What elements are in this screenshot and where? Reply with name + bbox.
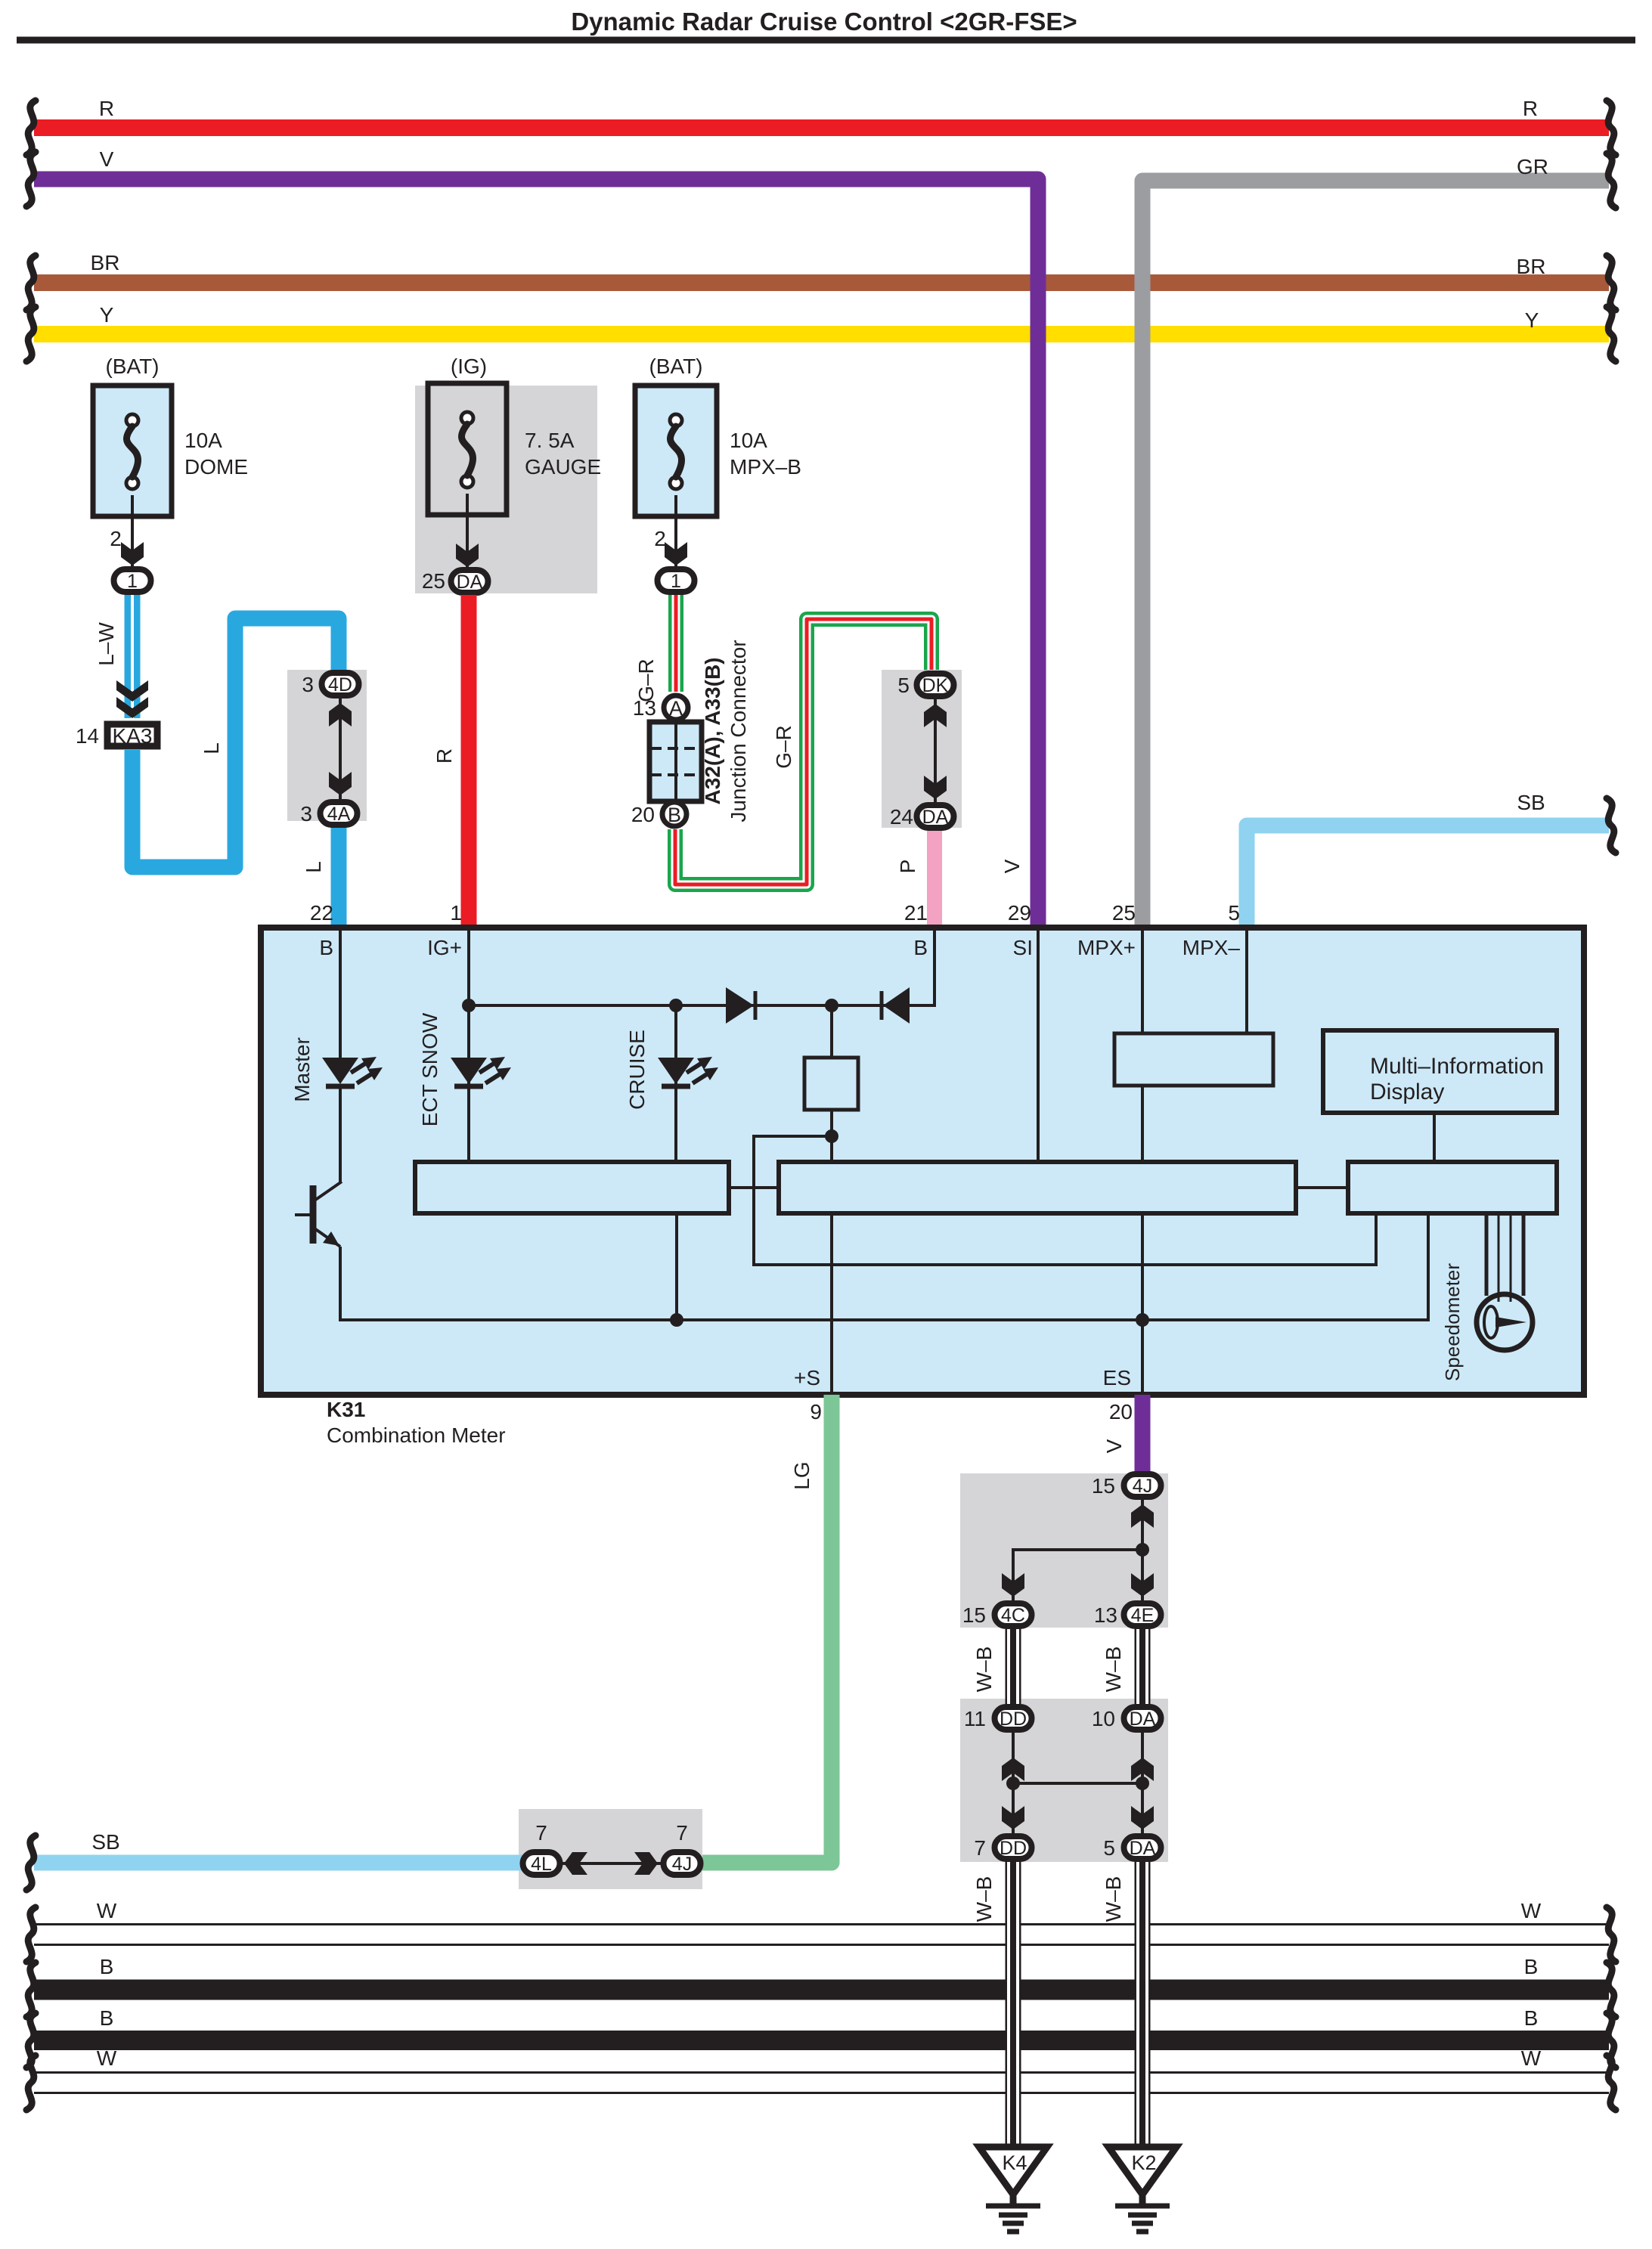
mpx interface box xyxy=(1114,1033,1273,1086)
svg-text:B: B xyxy=(668,804,681,826)
svg-text:A32(A), A33(B): A32(A), A33(B) xyxy=(701,658,724,805)
svg-text:L–W: L–W xyxy=(95,622,118,666)
svg-text:V: V xyxy=(1102,1439,1126,1453)
svg-text:11: 11 xyxy=(964,1707,986,1730)
LED Master xyxy=(322,1058,358,1084)
wire branch left of square xyxy=(754,1136,1376,1265)
svg-text:13: 13 xyxy=(633,696,656,720)
wire square to R2 xyxy=(830,1110,833,1162)
svg-text:25: 25 xyxy=(422,569,445,593)
wire DA to DA xyxy=(1141,1733,1144,1833)
svg-text:7: 7 xyxy=(974,1836,986,1860)
svg-text:5: 5 xyxy=(1228,901,1240,925)
connector oval 4J upper xyxy=(1124,1474,1161,1497)
squiggle GR right xyxy=(1607,153,1616,208)
svg-text:Y: Y xyxy=(100,303,114,327)
wire W-B DA to K2 xyxy=(1135,1862,1151,2144)
arrow down above DD lower xyxy=(1002,1806,1024,1829)
svg-text:4A: 4A xyxy=(327,804,351,825)
junction connector block A32/A33 xyxy=(649,722,702,801)
squiggle B2 right xyxy=(1607,2013,1616,2068)
svg-text:14: 14 xyxy=(76,724,99,748)
wire SI vertical xyxy=(1037,928,1040,1162)
svg-text:SB: SB xyxy=(1517,791,1545,814)
wire R from DA to pin 1 xyxy=(461,595,477,928)
svg-text:Junction Connector: Junction Connector xyxy=(727,640,750,822)
fuse 10A DOME xyxy=(93,386,172,516)
svg-text:5: 5 xyxy=(1103,1836,1115,1860)
svg-text:10A: 10A xyxy=(730,429,767,452)
wire V from pin 20 to 4J xyxy=(1135,1395,1151,1473)
junction emitter row ES xyxy=(1136,1313,1149,1327)
svg-text:K31: K31 xyxy=(327,1398,365,1421)
arrow into KA3 xyxy=(116,680,148,702)
svg-text:B: B xyxy=(100,2006,114,2030)
svg-text:2: 2 xyxy=(110,527,122,550)
wire 4L-4J link xyxy=(560,1862,662,1865)
svg-text:K2: K2 xyxy=(1131,2151,1156,2174)
wire square top xyxy=(830,1005,833,1058)
svg-text:Master: Master xyxy=(290,1037,314,1102)
connector circle A xyxy=(664,695,688,720)
wire L-W xyxy=(125,595,141,718)
wire BR bus xyxy=(34,274,1609,291)
squiggle W1 left xyxy=(26,1907,36,1962)
gray box connector DD/DA xyxy=(960,1699,1168,1862)
wire R2-R3 link xyxy=(1296,1186,1348,1189)
connector oval 4C xyxy=(995,1603,1032,1626)
svg-text:R: R xyxy=(1523,97,1538,120)
wire diode row xyxy=(469,1004,934,1007)
svg-text:7. 5A: 7. 5A xyxy=(525,429,575,452)
svg-text:L: L xyxy=(302,861,325,873)
wire W-B DD to K4 xyxy=(1006,1862,1021,2144)
connector oval 4D xyxy=(322,673,359,695)
junction DD xyxy=(1006,1777,1020,1790)
svg-text:W–B: W–B xyxy=(972,1646,996,1693)
arrow down above DA xyxy=(924,776,947,799)
svg-text:15: 15 xyxy=(1092,1474,1115,1498)
svg-text:+S: +S xyxy=(794,1366,820,1389)
svg-text:B: B xyxy=(913,936,928,959)
svg-text:SB: SB xyxy=(91,1830,119,1854)
svg-text:10A: 10A xyxy=(184,429,222,452)
wire MPX+ vertical xyxy=(1141,928,1144,1033)
wire L from 4A to pin 22 xyxy=(331,828,347,928)
arrow down above 4A xyxy=(329,772,352,795)
connector oval 4A xyxy=(321,802,358,825)
svg-text:V: V xyxy=(100,147,114,171)
svg-text:5: 5 xyxy=(897,674,910,697)
svg-text:DA: DA xyxy=(1130,1838,1156,1859)
svg-text:21: 21 xyxy=(904,901,928,925)
connector oval DK xyxy=(917,674,954,696)
wire MID to R3 xyxy=(1433,1113,1436,1162)
squiggle R right xyxy=(1607,101,1616,155)
connector oval DA upper xyxy=(1124,1707,1161,1730)
squiggle R left xyxy=(26,101,36,155)
svg-text:R: R xyxy=(432,748,456,764)
arrow up below DK xyxy=(924,704,947,727)
wire V bus to pin 29 SI xyxy=(34,179,1038,928)
svg-text:Multi–Information: Multi–Information xyxy=(1370,1054,1544,1079)
wire +S vertical xyxy=(830,1213,833,1395)
fuse 7.5A GAUGE xyxy=(428,383,507,515)
svg-text:G–R: G–R xyxy=(772,725,795,769)
svg-text:SI: SI xyxy=(1013,936,1033,959)
svg-text:Combination Meter: Combination Meter xyxy=(327,1423,506,1447)
wire fuse GAUGE pin 25 xyxy=(466,494,469,568)
svg-text:DA: DA xyxy=(457,572,483,593)
junction emitter row R1 xyxy=(670,1313,683,1327)
arrow right 4J xyxy=(634,1852,658,1875)
wire B bus 2 xyxy=(34,2031,1609,2050)
connector circle B xyxy=(662,802,687,826)
svg-text:DA: DA xyxy=(1130,1708,1156,1730)
diode D1 right xyxy=(726,987,754,1024)
wire pin22 to Master LED xyxy=(339,928,342,1058)
svg-text:4E: 4E xyxy=(1131,1605,1155,1626)
connector oval 1 DOME xyxy=(114,569,151,592)
wire W-B 4E to DA xyxy=(1135,1629,1151,1704)
squiggle SB bottom left xyxy=(26,1835,36,1890)
wire master LED to transistor xyxy=(339,1084,342,1182)
connector oval DD upper xyxy=(995,1707,1032,1730)
svg-text:20: 20 xyxy=(631,803,655,826)
svg-text:KA3: KA3 xyxy=(113,724,153,748)
wire DD-DA link xyxy=(1013,1782,1142,1785)
wire IG+ vertical xyxy=(467,928,470,1162)
svg-text:13: 13 xyxy=(1094,1603,1117,1627)
arrow up below 4D xyxy=(329,703,352,726)
svg-text:9: 9 xyxy=(810,1400,822,1423)
arrow up below 4J xyxy=(1131,1504,1154,1528)
svg-text:L: L xyxy=(200,742,223,754)
svg-text:Display: Display xyxy=(1370,1080,1444,1104)
junction CRUISE row xyxy=(669,999,683,1012)
svg-text:4J: 4J xyxy=(672,1854,692,1875)
squiggle B2 left xyxy=(26,2013,36,2068)
ic box R1 xyxy=(415,1162,729,1213)
svg-text:1: 1 xyxy=(671,571,681,592)
svg-text:DK: DK xyxy=(922,675,949,696)
junction DA xyxy=(1136,1777,1149,1790)
wire fuse DOME pin 2 xyxy=(131,495,134,566)
svg-text:Speedometer: Speedometer xyxy=(1441,1263,1464,1381)
squiggle Y left xyxy=(26,307,36,361)
wire connector DK-DA xyxy=(934,699,937,803)
wire Y bus xyxy=(34,326,1609,342)
wire pin21 vertical xyxy=(933,928,936,1007)
squiggle V left xyxy=(26,152,36,206)
wire B bus 1 xyxy=(34,1980,1609,2000)
LED ECT SNOW xyxy=(451,1058,487,1084)
arrow down above DA lower xyxy=(1131,1806,1154,1829)
gray box connector 4J/4C/4E xyxy=(960,1473,1168,1628)
gray box connector 4L/4J xyxy=(519,1809,702,1889)
resistor square xyxy=(804,1058,858,1110)
svg-text:W: W xyxy=(97,1899,117,1922)
svg-text:MPX–B: MPX–B xyxy=(730,455,801,479)
junction square row xyxy=(825,999,838,1012)
squiggle W2 left xyxy=(26,2055,36,2110)
svg-text:BR: BR xyxy=(91,251,120,274)
connector oval 1 MPX-B xyxy=(658,569,695,592)
junction below square xyxy=(825,1129,838,1143)
svg-text:B: B xyxy=(100,1955,114,1978)
arrow down above 4E xyxy=(1131,1573,1154,1597)
wire CRUISE vertical xyxy=(674,1005,677,1162)
arrow into connector 1 MPX-B xyxy=(665,542,687,565)
junction 4J branch xyxy=(1136,1543,1149,1557)
connector oval DA GAUGE xyxy=(451,570,488,593)
svg-text:MPX+: MPX+ xyxy=(1077,936,1136,959)
svg-text:1: 1 xyxy=(127,571,138,592)
svg-text:W–B: W–B xyxy=(972,1876,996,1922)
diode D2 left xyxy=(880,991,884,1020)
ground K4 xyxy=(979,2147,1047,2195)
arrow into connector 1 DOME xyxy=(121,542,144,565)
ground K2 xyxy=(1108,2147,1176,2195)
svg-text:7: 7 xyxy=(676,1821,688,1845)
svg-text:LG: LG xyxy=(790,1461,814,1489)
speedometer gauge xyxy=(1477,1294,1533,1350)
svg-text:MPX–: MPX– xyxy=(1182,936,1241,959)
wire fuse MPX-B pin 2 xyxy=(674,495,677,566)
svg-text:ES: ES xyxy=(1103,1366,1131,1389)
ic box R2 xyxy=(779,1162,1296,1213)
svg-text:DOME: DOME xyxy=(184,455,248,479)
svg-text:W–B: W–B xyxy=(1102,1876,1125,1922)
svg-text:4C: 4C xyxy=(1001,1605,1025,1626)
connector oval 4L xyxy=(523,1852,560,1875)
wire 4J to 4E xyxy=(1141,1500,1144,1600)
LED CRUISE xyxy=(658,1058,694,1084)
svg-text:1: 1 xyxy=(450,901,462,925)
svg-text:B: B xyxy=(1524,2006,1539,2030)
squiggle BR right xyxy=(1607,256,1616,310)
arrow up below DA xyxy=(1131,1758,1154,1781)
connector oval DA lower2 xyxy=(1124,1836,1161,1859)
connector oval DD lower xyxy=(995,1836,1032,1859)
svg-text:20: 20 xyxy=(1109,1400,1133,1423)
squiggle BR left xyxy=(26,256,36,310)
wire G-R from 1 to A xyxy=(668,595,683,692)
wire L from KA3 to 4D xyxy=(132,618,339,867)
svg-text:25: 25 xyxy=(1112,901,1136,925)
wire emitter down xyxy=(340,1213,1428,1320)
gray box connector DK/DA xyxy=(882,670,962,828)
svg-text:29: 29 xyxy=(1008,901,1031,925)
squiggle B1 left xyxy=(26,1962,36,2017)
svg-text:IG+: IG+ xyxy=(427,936,462,959)
connector oval DA lower xyxy=(917,805,954,828)
junction IG+ row xyxy=(462,999,476,1012)
svg-text:4D: 4D xyxy=(328,674,352,695)
connector oval 4J lower xyxy=(664,1852,701,1875)
wire R bus xyxy=(34,119,1609,136)
svg-text:DD: DD xyxy=(1000,1708,1027,1730)
svg-text:W: W xyxy=(1521,2046,1542,2070)
svg-text:15: 15 xyxy=(962,1603,986,1627)
svg-text:GR: GR xyxy=(1517,155,1548,178)
wire branch to 4C xyxy=(1013,1550,1142,1600)
arrow into connector DA GAUGE xyxy=(456,544,479,567)
wire W-B 4C to DD xyxy=(1006,1629,1021,1704)
svg-text:24: 24 xyxy=(890,805,913,829)
wire DD to DD xyxy=(1012,1733,1015,1833)
squiggle SB right xyxy=(1607,798,1616,853)
multi-information display box xyxy=(1323,1030,1557,1113)
wire mpx box to R2 xyxy=(1141,1086,1144,1162)
svg-text:ECT SNOW: ECT SNOW xyxy=(418,1012,442,1126)
wire ES vertical xyxy=(1141,1213,1144,1395)
arrow left 4L xyxy=(564,1852,587,1875)
wire SB to pin 5 MPX- xyxy=(1247,826,1609,928)
svg-text:22: 22 xyxy=(310,901,333,925)
svg-text:10: 10 xyxy=(1092,1707,1115,1730)
connector oval 4E xyxy=(1124,1603,1161,1626)
wire R1-R2 link xyxy=(729,1186,779,1189)
wire connector 4D-4A xyxy=(339,699,342,799)
squiggle W1 right xyxy=(1607,1907,1616,1962)
wire R1 bottom tap xyxy=(675,1213,678,1320)
svg-text:A: A xyxy=(669,697,683,720)
gray box connector 4D/4A xyxy=(287,670,367,821)
svg-text:CRUISE: CRUISE xyxy=(625,1030,649,1110)
wire W bus 2 xyxy=(34,2071,1609,2094)
title underline xyxy=(17,37,1635,44)
wire P to pin 21 xyxy=(927,831,942,928)
wire GR bus to pin 25 MPX+ xyxy=(1142,181,1609,928)
squiggle Y right xyxy=(1607,307,1616,361)
svg-text:K4: K4 xyxy=(1002,2151,1027,2174)
squiggle B1 right xyxy=(1607,1962,1616,2017)
arrow up below DD xyxy=(1002,1758,1024,1781)
svg-text:Dynamic Radar Cruise Control <: Dynamic Radar Cruise Control <2GR-FSE> xyxy=(571,8,1077,36)
svg-text:(BAT): (BAT) xyxy=(105,355,159,378)
svg-text:DA: DA xyxy=(922,807,949,828)
arrow down above 4C xyxy=(1002,1573,1024,1597)
svg-text:GAUGE: GAUGE xyxy=(525,455,601,479)
svg-text:W: W xyxy=(1521,1899,1542,1922)
wire G-R from B to DK xyxy=(675,619,931,884)
squiggle W2 right xyxy=(1607,2055,1616,2110)
svg-text:3: 3 xyxy=(300,802,312,826)
wire LG from pin 9 to 4J xyxy=(702,1395,832,1863)
svg-text:B: B xyxy=(1524,1955,1539,1978)
ic box R3 xyxy=(1348,1162,1557,1213)
fuse 10A MPX-B xyxy=(635,386,717,516)
svg-text:W: W xyxy=(97,2046,117,2070)
svg-text:2: 2 xyxy=(654,527,666,550)
svg-text:7: 7 xyxy=(535,1821,547,1845)
svg-text:4L: 4L xyxy=(531,1854,552,1875)
wire W bus 1 xyxy=(34,1923,1609,1946)
wire MPX- vertical xyxy=(1245,928,1248,1033)
svg-text:(BAT): (BAT) xyxy=(649,355,702,378)
wire SB bottom xyxy=(34,1855,522,1871)
svg-text:R: R xyxy=(99,97,114,120)
svg-text:Y: Y xyxy=(1525,308,1539,332)
transistor Q xyxy=(310,1185,317,1244)
speedometer wires xyxy=(1485,1213,1489,1296)
svg-text:(IG): (IG) xyxy=(451,355,487,378)
svg-text:V: V xyxy=(1000,859,1024,873)
svg-text:DD: DD xyxy=(1000,1838,1027,1859)
gray box behind GAUGE fuse xyxy=(415,386,597,593)
svg-text:4J: 4J xyxy=(1133,1476,1152,1497)
svg-text:3: 3 xyxy=(302,673,314,696)
connector KA3 xyxy=(107,724,157,746)
svg-text:B: B xyxy=(319,936,333,959)
svg-text:BR: BR xyxy=(1517,255,1546,278)
svg-text:P: P xyxy=(896,860,919,874)
combination meter box K31 xyxy=(261,928,1584,1395)
svg-text:W–B: W–B xyxy=(1102,1646,1125,1693)
